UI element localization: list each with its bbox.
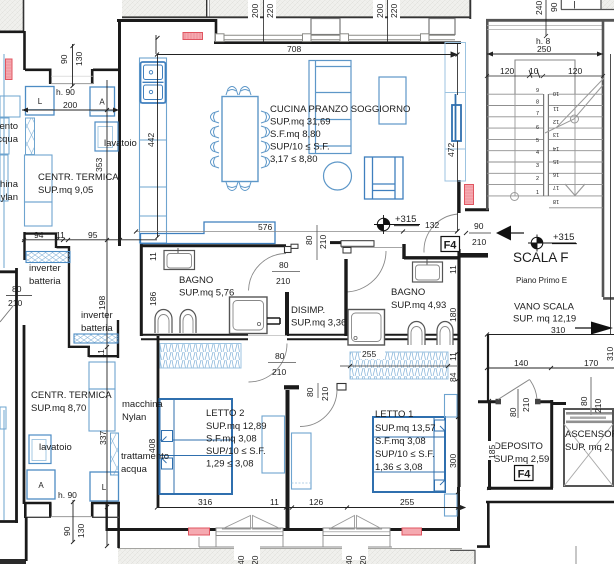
svg-text:S.F.mq 8,80: S.F.mq 8,80 — [270, 129, 321, 140]
svg-text:SUP.mq 3,36: SUP.mq 3,36 — [291, 318, 346, 329]
svg-text:200: 200 — [250, 4, 260, 18]
svg-text:A: A — [99, 98, 105, 107]
label macchina nylan — [122, 399, 163, 423]
dim deposito wall ticks — [487, 399, 491, 490]
wc bagno2 — [408, 322, 425, 346]
svg-text:A: A — [38, 481, 44, 490]
svg-text:186: 186 — [148, 292, 158, 306]
svg-text:batteria: batteria — [81, 323, 113, 334]
svg-text:180: 180 — [448, 308, 458, 322]
svg-text:ylan: ylan — [1, 192, 18, 203]
svg-text:5: 5 — [536, 138, 539, 144]
hatched ground bottom strip — [118, 548, 462, 564]
svg-text:210: 210 — [593, 399, 603, 413]
room label cucina — [270, 104, 410, 165]
wall band landing-deposito y255 — [458, 253, 489, 258]
svg-text:SUP. mq 2,: SUP. mq 2, — [565, 442, 612, 453]
svg-text:S.F.mq 3,08: S.F.mq 3,08 — [375, 436, 426, 447]
svg-text:cqua: cqua — [0, 134, 19, 145]
svg-text:140: 140 — [514, 358, 528, 368]
CT2 macchina unit — [89, 362, 115, 431]
kitchen counter — [140, 58, 167, 243]
svg-text:inverter: inverter — [81, 310, 113, 321]
+315 label scala — [552, 232, 577, 244]
label macchina left clipped — [0, 179, 19, 203]
wall bagni south band y337 — [141, 335, 460, 340]
dim text 220 w1 — [264, 0, 276, 19]
radiator kitchen top — [183, 33, 203, 40]
svg-text:trattamento: trattamento — [121, 451, 169, 462]
wall kitchen west x119 — [118, 19, 121, 246]
shower bagno1 — [230, 297, 281, 334]
nightstand letto1 top — [445, 395, 458, 418]
door arc letto2 — [249, 344, 288, 383]
svg-text:3,17 ≤ 8,80: 3,17 ≤ 8,80 — [270, 154, 317, 165]
dim 80-210 letto2 door fraction — [268, 362, 296, 364]
bed letto1 — [373, 417, 445, 492]
hatched ground bottom-right — [450, 550, 476, 564]
dim 472 vertical — [456, 44, 460, 233]
dim 94-11-95 line — [22, 238, 157, 242]
svg-text:ento: ento — [0, 121, 18, 132]
east window band — [445, 43, 466, 182]
dim 255 wardrobe line — [340, 364, 457, 368]
wall jamb x216 top — [215, 19, 218, 43]
wall bagno1 east x287 lower — [285, 292, 289, 336]
nightstand letto1 bottom — [445, 494, 458, 516]
wall letto1 east x458 lower — [457, 487, 460, 530]
svg-text:2: 2 — [536, 176, 539, 182]
svg-text:20: 20 — [250, 555, 260, 564]
svg-text:120: 120 — [500, 66, 514, 76]
room label bagno2 — [391, 287, 446, 311]
dim text 90 tr — [547, 0, 559, 13]
svg-text:11: 11 — [148, 252, 158, 261]
svg-text:11: 11 — [448, 352, 458, 361]
dim 310 line vano scala — [485, 333, 614, 337]
left apartment furniture strip — [0, 54, 20, 520]
kitchen chairs left — [211, 111, 220, 168]
wc bagno1 — [155, 310, 172, 334]
room label letto2 — [206, 408, 267, 470]
CT1 wardrobe X — [26, 118, 35, 155]
svg-text:120: 120 — [568, 66, 582, 76]
kitchen chairs right — [261, 111, 270, 168]
wardrobe hatch letto1 — [350, 352, 448, 379]
svg-text:1: 1 — [536, 190, 539, 196]
svg-text:acqua: acqua — [121, 464, 148, 475]
dim 200 line CT1 — [22, 108, 119, 113]
svg-text:11: 11 — [553, 105, 559, 111]
svg-text:6: 6 — [536, 125, 539, 131]
wall landing bottom y209 — [465, 208, 489, 211]
hatched neighbour slab top-left — [0, 0, 24, 32]
svg-text:185: 185 — [487, 445, 497, 459]
room label letto1 — [375, 409, 436, 473]
svg-text:80: 80 — [579, 396, 589, 406]
entry big arrow — [496, 226, 524, 241]
svg-text:4: 4 — [536, 150, 539, 156]
svg-text:130: 130 — [76, 524, 86, 538]
svg-text:310: 310 — [551, 325, 565, 335]
wall corridor step x404 — [404, 244, 459, 259]
sofa — [309, 61, 351, 154]
dim text 255w — [361, 348, 385, 359]
wall exterior bottom-left x26 — [25, 517, 28, 561]
svg-text:SUP.mq 9,05: SUP.mq 9,05 — [38, 185, 93, 196]
svg-text:F4: F4 — [518, 469, 532, 481]
CT1 washbasin — [95, 122, 118, 151]
label deposito — [494, 441, 549, 465]
svg-text:SUP.mq 13,57: SUP.mq 13,57 — [375, 423, 436, 434]
wall CT1 entrance left apartment — [0, 31, 120, 84]
tv bench — [141, 222, 276, 244]
dim 80-210 bagno1 door fraction — [272, 271, 300, 273]
balustrade sill top windows — [216, 19, 456, 42]
label trattamento left clipped — [0, 121, 19, 145]
svg-text:SUP.mq 2,59: SUP.mq 2,59 — [494, 454, 549, 465]
CT1 boiler unit — [25, 155, 53, 226]
stair treads right flight — [549, 94, 603, 208]
svg-text:17: 17 — [553, 184, 559, 190]
bed letto2 — [160, 399, 233, 494]
svg-text:1,29 ≤ 3,08: 1,29 ≤ 3,08 — [206, 459, 253, 470]
dim 250 line stair — [487, 52, 603, 57]
dim 80-210 letto1 door fraction — [317, 383, 319, 398]
svg-text:13: 13 — [553, 131, 559, 137]
svg-text:11: 11 — [448, 265, 458, 274]
svg-text:S.F.mq 3,08: S.F.mq 3,08 — [206, 434, 257, 445]
svg-text:337: 337 — [98, 431, 108, 445]
dim text 200 w1 — [248, 0, 260, 19]
round side table — [324, 162, 352, 190]
dim 80-210 left stack — [6, 295, 32, 297]
svg-text:90: 90 — [59, 54, 69, 64]
svg-text:lavatoio: lavatoio — [39, 442, 72, 453]
+315 label soggiorno — [394, 214, 419, 226]
wall CT1 south + inverter niche — [24, 232, 70, 348]
svg-text:h. 90: h. 90 — [58, 490, 77, 500]
svg-text:7: 7 — [536, 111, 539, 117]
label vano scala — [513, 302, 576, 325]
level marker soggiorno — [374, 215, 420, 234]
desk letto1 west — [292, 433, 312, 489]
balcony edges bottom — [199, 536, 576, 564]
armchair — [365, 157, 404, 199]
svg-text:255: 255 — [400, 497, 414, 507]
svg-text:15: 15 — [553, 158, 559, 164]
svg-text:DEPOSITO: DEPOSITO — [494, 441, 543, 452]
svg-text:lavatoio: lavatoio — [104, 138, 137, 149]
door arc soggiorno-corridor — [345, 251, 386, 292]
dim 576-132 line — [134, 230, 459, 234]
room label ct1 — [38, 172, 119, 196]
wall apartment east x459 — [457, 180, 460, 487]
svg-text:40: 40 — [236, 555, 246, 564]
wall stairwell west x487 — [486, 19, 489, 210]
svg-text:20: 20 — [358, 555, 368, 564]
svg-text:210: 210 — [272, 367, 286, 377]
door arc letto1 — [300, 390, 337, 427]
svg-text:hina: hina — [0, 179, 19, 190]
room label bagno1 — [179, 275, 234, 299]
wall inverter2 niche CT2 — [69, 320, 119, 358]
dim long vertical x107 — [105, 80, 109, 548]
wall letto2 west x158 — [157, 336, 160, 507]
dim 90-130 vertical bottom — [71, 500, 75, 544]
dim 442 vertical — [156, 35, 160, 239]
svg-text:11: 11 — [56, 230, 65, 240]
dim line top window2 — [387, 0, 389, 43]
desk letto2 — [262, 416, 285, 473]
dim line top right 240-90 — [544, 0, 575, 38]
svg-text:18: 18 — [553, 198, 559, 204]
svg-text:L: L — [38, 97, 43, 106]
door arc bagno1 — [249, 254, 287, 291]
level marker scala — [528, 235, 576, 252]
svg-text:84: 84 — [448, 372, 458, 382]
svg-text:SUP.mq 31,69: SUP.mq 31,69 — [270, 117, 331, 128]
wall stairwell east x603 — [603, 19, 614, 298]
svg-text:576: 576 — [258, 222, 272, 232]
wall left apartment east x16 — [0, 268, 18, 523]
svg-text:90: 90 — [474, 221, 484, 231]
svg-text:80: 80 — [508, 407, 518, 417]
svg-text:210: 210 — [472, 237, 486, 247]
svg-text:SCALA F: SCALA F — [513, 250, 569, 265]
dim 90-210 entry fraction — [464, 231, 491, 235]
svg-text:220: 220 — [265, 4, 275, 18]
svg-text:CENTR. TERMICA: CENTR. TERMICA — [38, 172, 119, 183]
radiator letto2 — [189, 528, 210, 535]
svg-text:90: 90 — [62, 526, 72, 536]
wall CT2 south with window — [24, 503, 120, 548]
CT1 A cabinet — [90, 87, 115, 116]
dim text 220 w2 — [388, 0, 400, 19]
svg-text:80: 80 — [275, 351, 285, 361]
svg-text:200: 200 — [63, 100, 77, 110]
label piano primo — [516, 276, 567, 285]
dim 80-210 soggiorno door fraction — [316, 225, 318, 260]
svg-text:SUP.mq 5,76: SUP.mq 5,76 — [179, 288, 234, 299]
elevator shaft — [564, 377, 613, 486]
svg-text:Piano Primo E: Piano Primo E — [516, 276, 567, 285]
svg-text:VANO SCALA: VANO SCALA — [514, 302, 575, 313]
kitchen table — [222, 97, 258, 182]
svg-text:200: 200 — [375, 4, 385, 18]
CT2 trattamento strip — [111, 433, 119, 475]
hatched slab top-right corner — [561, 0, 614, 10]
stair numbers right flight rotated — [553, 90, 559, 204]
dim 90-130 vertical top — [71, 44, 75, 88]
svg-text:40: 40 — [344, 555, 354, 564]
svg-text:442: 442 — [146, 133, 156, 147]
dim text 40a — [234, 546, 260, 564]
svg-text:240: 240 — [534, 1, 544, 15]
dim 708 line — [155, 52, 457, 57]
svg-text:80: 80 — [305, 387, 315, 397]
wall disimp-bagno2 x346 — [344, 259, 347, 336]
wall hall south y387 — [284, 384, 346, 391]
svg-text:130: 130 — [74, 52, 84, 66]
svg-text:80: 80 — [304, 235, 314, 245]
svg-text:255: 255 — [362, 349, 376, 359]
svg-text:12: 12 — [553, 118, 559, 124]
label ascensore — [565, 429, 614, 453]
svg-text:DISIMP.: DISIMP. — [291, 305, 325, 316]
door leaf diagonal left apartment — [0, 306, 13, 322]
label scala f — [513, 250, 569, 265]
svg-text:11: 11 — [270, 497, 279, 507]
stair upper landing box — [515, 60, 575, 94]
svg-text:94: 94 — [34, 230, 44, 240]
svg-text:SUP. mq 12,19: SUP. mq 12,19 — [513, 314, 576, 325]
svg-text:F4: F4 — [444, 240, 458, 252]
wall top kitchen y20 — [117, 19, 217, 22]
wall letto2-letto1 x287 — [286, 390, 290, 530]
wall soggiorno top y42 — [214, 41, 461, 44]
dim right edge vertical — [610, 54, 612, 334]
radiator letto1 — [402, 528, 422, 535]
svg-text:316: 316 — [198, 497, 212, 507]
svg-text:220: 220 — [389, 4, 399, 18]
pocket door soggiorno wall y242 — [330, 241, 402, 253]
dim text 200 w2 — [373, 0, 385, 19]
french door letto2 — [216, 516, 283, 536]
CT2 A cabinet — [27, 470, 55, 499]
stair central spine wall — [515, 94, 575, 196]
wall below deposito y502 — [477, 502, 614, 547]
wall stairwell top y20 — [486, 20, 614, 29]
dark bar bottom-left corner — [0, 559, 26, 564]
svg-text:472: 472 — [446, 143, 456, 157]
label inverter batteria left — [29, 263, 61, 287]
CT2 L cabinet — [90, 472, 119, 501]
radiator entry east wall — [465, 185, 474, 205]
stair numbers left flight — [536, 88, 539, 196]
label trattamento acqua — [121, 451, 169, 475]
deposito door — [496, 380, 541, 405]
svg-text:1,36 ≤ 3,08: 1,36 ≤ 3,08 — [375, 462, 422, 473]
room label ct2 — [31, 390, 112, 414]
vano scala right arrow — [575, 322, 613, 335]
dim text 185 — [487, 441, 496, 460]
coffee table — [379, 77, 406, 124]
dim letto bottom line — [155, 505, 465, 510]
label inverter batteria ct2 — [81, 310, 113, 334]
svg-text:Nylan: Nylan — [122, 412, 146, 423]
wall deposito area — [478, 400, 566, 490]
dim line top window1 — [263, 0, 265, 43]
kitchen sink unit — [141, 62, 166, 103]
svg-text:80: 80 — [12, 284, 22, 294]
label lavatoio ct1 — [104, 138, 137, 149]
svg-text:+315: +315 — [553, 232, 574, 243]
svg-text:macchina: macchina — [122, 399, 163, 410]
svg-text:BAGNO: BAGNO — [179, 275, 213, 286]
svg-text:LETTO 2: LETTO 2 — [206, 408, 244, 419]
svg-text:126: 126 — [309, 497, 323, 507]
dim deposito door vertical — [517, 389, 519, 418]
svg-text:SUP.mq 8,70: SUP.mq 8,70 — [31, 403, 86, 414]
french door letto1 — [323, 516, 390, 536]
svg-text:h. 90: h. 90 — [56, 87, 75, 97]
svg-text:310: 310 — [605, 347, 614, 361]
svg-text:132: 132 — [425, 220, 439, 230]
svg-text:95: 95 — [88, 230, 98, 240]
dim letto1 vertical x458 — [456, 340, 460, 530]
svg-text:CENTR. TERMICA: CENTR. TERMICA — [31, 390, 112, 401]
svg-text:SUP/10 ≤ S.F.: SUP/10 ≤ S.F. — [206, 446, 266, 457]
washbasin bagno2 — [413, 260, 443, 283]
washbasin bagno1 — [164, 248, 195, 270]
kitchen chairs top — [226, 87, 251, 96]
dim 120-10-120 line — [485, 70, 605, 78]
svg-text:170: 170 — [584, 358, 598, 368]
svg-text:SUP.mq 12,89: SUP.mq 12,89 — [206, 421, 267, 432]
svg-text:250: 250 — [537, 44, 551, 54]
svg-text:80: 80 — [279, 260, 289, 270]
svg-text:LETTO 1: LETTO 1 — [375, 409, 413, 420]
wall vano-deposito west x488 — [487, 335, 489, 402]
svg-text:14: 14 — [553, 145, 559, 151]
wall bagno1 north y246 — [140, 244, 286, 336]
svg-text:90: 90 — [549, 2, 559, 12]
svg-text:10: 10 — [553, 90, 559, 96]
stair treads left flight — [487, 94, 603, 196]
radiator left apartment — [6, 59, 13, 80]
dim 140-170 line — [485, 366, 614, 370]
svg-text:3: 3 — [536, 163, 539, 169]
bidet bagno2 — [437, 322, 453, 346]
svg-text:300: 300 — [448, 454, 458, 468]
entry door arc apartment — [424, 214, 458, 253]
svg-text:inverter: inverter — [29, 263, 61, 274]
wardrobe hatch letto2 — [160, 344, 241, 369]
svg-text:ASCENSORE: ASCENSORE — [565, 429, 614, 440]
F4 box entry — [441, 237, 460, 252]
svg-text:BAGNO: BAGNO — [391, 287, 425, 298]
door jamb bagno1 — [285, 244, 299, 252]
inverter batteria unit CT2 — [74, 334, 118, 343]
label lavatoio ct2 — [39, 442, 72, 453]
CT1 L cabinet — [26, 87, 55, 116]
svg-text:408: 408 — [147, 439, 157, 453]
svg-text:198: 198 — [97, 296, 107, 310]
wall CT2 west x24 — [23, 325, 26, 504]
svg-text:9: 9 — [536, 88, 539, 94]
svg-text:SUP.mq 4,93: SUP.mq 4,93 — [391, 300, 446, 311]
svg-text:+315: +315 — [395, 214, 416, 225]
svg-text:210: 210 — [8, 298, 22, 308]
svg-text:210: 210 — [276, 276, 290, 286]
wall south letto rooms y529 — [106, 503, 460, 531]
CT2 washbasin lavatoio — [29, 435, 51, 464]
svg-text:8: 8 — [536, 100, 539, 106]
svg-text:CUCINA PRANZO SOGGIORNO: CUCINA PRANZO SOGGIORNO — [270, 104, 410, 115]
svg-text:L: L — [102, 483, 107, 492]
kitchen chairs bottom — [226, 182, 251, 191]
svg-text:batteria: batteria — [29, 276, 61, 287]
hatched slab top strip A — [122, 0, 210, 18]
stair direction line and arrow — [511, 78, 605, 201]
svg-text:210: 210 — [521, 398, 531, 412]
svg-text:10: 10 — [529, 66, 539, 76]
svg-text:SUP/10 ≤ S.F.: SUP/10 ≤ S.F. — [375, 449, 435, 460]
dim text 40b — [342, 546, 368, 564]
svg-text:11: 11 — [96, 349, 106, 358]
F4 box deposito — [515, 466, 534, 481]
